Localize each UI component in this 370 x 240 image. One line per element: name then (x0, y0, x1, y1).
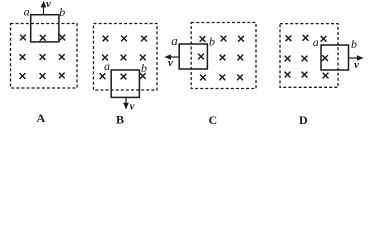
label b (D) (351, 37, 357, 51)
svg-text:a: a (313, 35, 319, 49)
svg-text:v: v (168, 57, 173, 69)
flux crosses C row 2 (198, 54, 243, 61)
flux crosses A row 3 (20, 73, 65, 79)
panel letter D (299, 113, 308, 127)
velocity arrow C (leftward) (164, 54, 179, 60)
label v (B) (130, 101, 135, 113)
panel letter C (209, 113, 218, 127)
panel letter B (116, 113, 124, 127)
svg-text:b: b (141, 61, 147, 75)
conducting loop B (square, straddles bottom edge) (111, 70, 139, 97)
conducting loop D (square, straddles right edge) (321, 45, 349, 70)
svg-text:B: B (116, 113, 124, 127)
flux crosses B row 2 (102, 55, 146, 61)
flux crosses B row 3 (100, 73, 146, 79)
conducting loop A (square, straddles top edge) (31, 15, 59, 42)
velocity arrow A (upward) (41, 1, 47, 15)
field region C (dashed rectangle, B into page) (191, 23, 256, 89)
label v (C) (168, 57, 173, 69)
conducting loop C (square, straddles left edge) (179, 44, 207, 69)
svg-text:a: a (104, 59, 110, 73)
label b (A) (59, 5, 65, 19)
svg-text:v: v (130, 101, 135, 113)
panel letter A (37, 111, 46, 125)
svg-text:a: a (171, 33, 178, 48)
flux crosses C row 3 (200, 74, 243, 80)
flux crosses C row 1 (200, 36, 244, 42)
field region D (dashed rectangle, B into page) (280, 24, 338, 88)
field region B (dashed rectangle, B into page) (94, 24, 158, 91)
label a (D) (313, 35, 319, 49)
svg-text:b: b (351, 37, 357, 51)
label a (C) (171, 33, 178, 48)
svg-text:v: v (354, 59, 359, 71)
flux crosses D row 2 (285, 55, 328, 61)
label a (A) (24, 4, 30, 18)
flux crosses B row 1 (103, 36, 147, 42)
flux crosses A row 2 (20, 54, 65, 60)
label a (B) (104, 59, 110, 73)
field region A (dashed rectangle, B into page) (11, 24, 78, 89)
label b (B) (141, 61, 147, 75)
svg-text:v: v (46, 0, 51, 10)
svg-text:b: b (209, 35, 215, 49)
label v (A) (46, 0, 51, 10)
label b (C) (209, 35, 215, 49)
svg-text:D: D (299, 113, 308, 127)
flux crosses D row 3 (285, 72, 329, 79)
flux crosses A row 1 (20, 35, 65, 41)
velocity arrow B (downward) (123, 97, 129, 109)
flux crosses D row 1 (286, 35, 327, 42)
label v (D) (354, 59, 359, 71)
svg-text:A: A (37, 111, 46, 125)
svg-text:C: C (209, 113, 218, 127)
svg-text:b: b (59, 5, 65, 19)
velocity arrow D (rightward) (349, 55, 364, 61)
svg-text:a: a (24, 4, 30, 18)
